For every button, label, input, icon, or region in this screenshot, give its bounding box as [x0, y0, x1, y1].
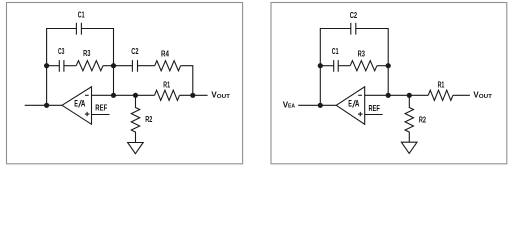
wire: node M down to FB row	[113, 66, 115, 96]
ground	[128, 143, 144, 154]
resistor R4	[155, 50, 181, 71]
capacitor C1	[332, 47, 339, 72]
junction at R1/R4 join	[190, 93, 195, 98]
svg-text:A: A	[355, 99, 360, 109]
wire: left riser of C2 loop	[320, 29, 351, 66]
junction at R2 tap	[407, 93, 412, 98]
node left junction	[318, 63, 323, 68]
wire: R3 to node M	[103, 65, 114, 67]
wire: R2 tap to R1	[409, 94, 428, 96]
wire: R3 to right node	[377, 65, 388, 67]
wire: C1 to R3	[338, 65, 350, 67]
wire: C2 to R4	[138, 65, 155, 67]
capacitor C3	[58, 47, 65, 72]
node right junction	[386, 63, 391, 68]
wire: left riser of C1 loop	[47, 29, 77, 66]
wire: VEA to E/A output	[298, 104, 336, 106]
node L junction	[44, 63, 49, 68]
capacitor C2	[350, 11, 358, 34]
svg-text:R1: R1	[438, 80, 445, 89]
svg-text:A: A	[81, 98, 86, 108]
svg-text:R3: R3	[358, 49, 366, 58]
op-amp U1 error amplifier E/A	[62, 87, 92, 125]
wire: FB to R2 tap	[388, 94, 409, 96]
wire: FB to R2 tap	[114, 94, 136, 96]
junction on output wire	[44, 103, 49, 108]
junction at R2 tap	[133, 93, 138, 98]
right figure frame	[271, 3, 507, 164]
junction on output wire	[318, 103, 323, 108]
svg-text:C1: C1	[332, 47, 339, 56]
svg-text:E: E	[74, 98, 78, 108]
svg-text:R1: R1	[163, 80, 170, 89]
resistor R2	[131, 95, 152, 142]
op-amp U2 error amplifier E/A	[336, 87, 365, 125]
svg-text:C1: C1	[78, 11, 85, 20]
capacitor C2	[131, 47, 139, 72]
ground	[401, 142, 417, 153]
wire: R4 to corner then down to FB row	[181, 66, 193, 96]
wire: R1 to VOUT terminal	[453, 94, 470, 96]
capacitor C1	[76, 11, 85, 35]
resistor R3	[350, 49, 377, 70]
wire: top wire right of C2 down to right node	[356, 29, 388, 66]
svg-text:R2: R2	[145, 115, 152, 124]
wire: inverting input from E/A	[365, 94, 389, 96]
wire: E/A output stub	[25, 104, 62, 106]
svg-text:R2: R2	[419, 115, 426, 124]
wire: C3 to R3	[64, 65, 76, 67]
svg-text:REF: REF	[95, 103, 107, 113]
wire: left node to C1	[320, 65, 333, 67]
svg-text:REF: REF	[369, 103, 380, 113]
wire: R1 to VOUT terminal	[180, 94, 208, 96]
wire: inverting input from E/A	[92, 94, 114, 96]
reference REF input	[365, 103, 383, 115]
node FB junction	[386, 93, 391, 98]
resistor R2	[405, 95, 426, 142]
left figure frame	[7, 3, 243, 164]
wire: right node down to inverting row	[387, 66, 389, 96]
svg-text:R4: R4	[161, 50, 169, 59]
resistor R3	[76, 49, 103, 71]
node FB junction	[111, 93, 116, 98]
wire: R2 tap to R1	[136, 94, 155, 96]
svg-text:C3: C3	[58, 47, 65, 56]
resistor R1	[428, 80, 453, 100]
wire: top wire right of C1 down to node M	[81, 29, 113, 66]
wire: vertical from output node up to node L	[46, 66, 48, 106]
wire: node L to C3	[47, 65, 60, 67]
wire: vertical from output node up to middle row	[319, 66, 321, 106]
wire: node M to C2	[114, 65, 133, 67]
node M junction	[111, 63, 116, 68]
svg-text:C2: C2	[350, 11, 358, 20]
svg-text:C2: C2	[131, 47, 139, 56]
reference REF input	[92, 103, 110, 115]
svg-text:E: E	[348, 99, 352, 109]
svg-text:R3: R3	[83, 49, 91, 58]
resistor R1	[155, 80, 180, 100]
